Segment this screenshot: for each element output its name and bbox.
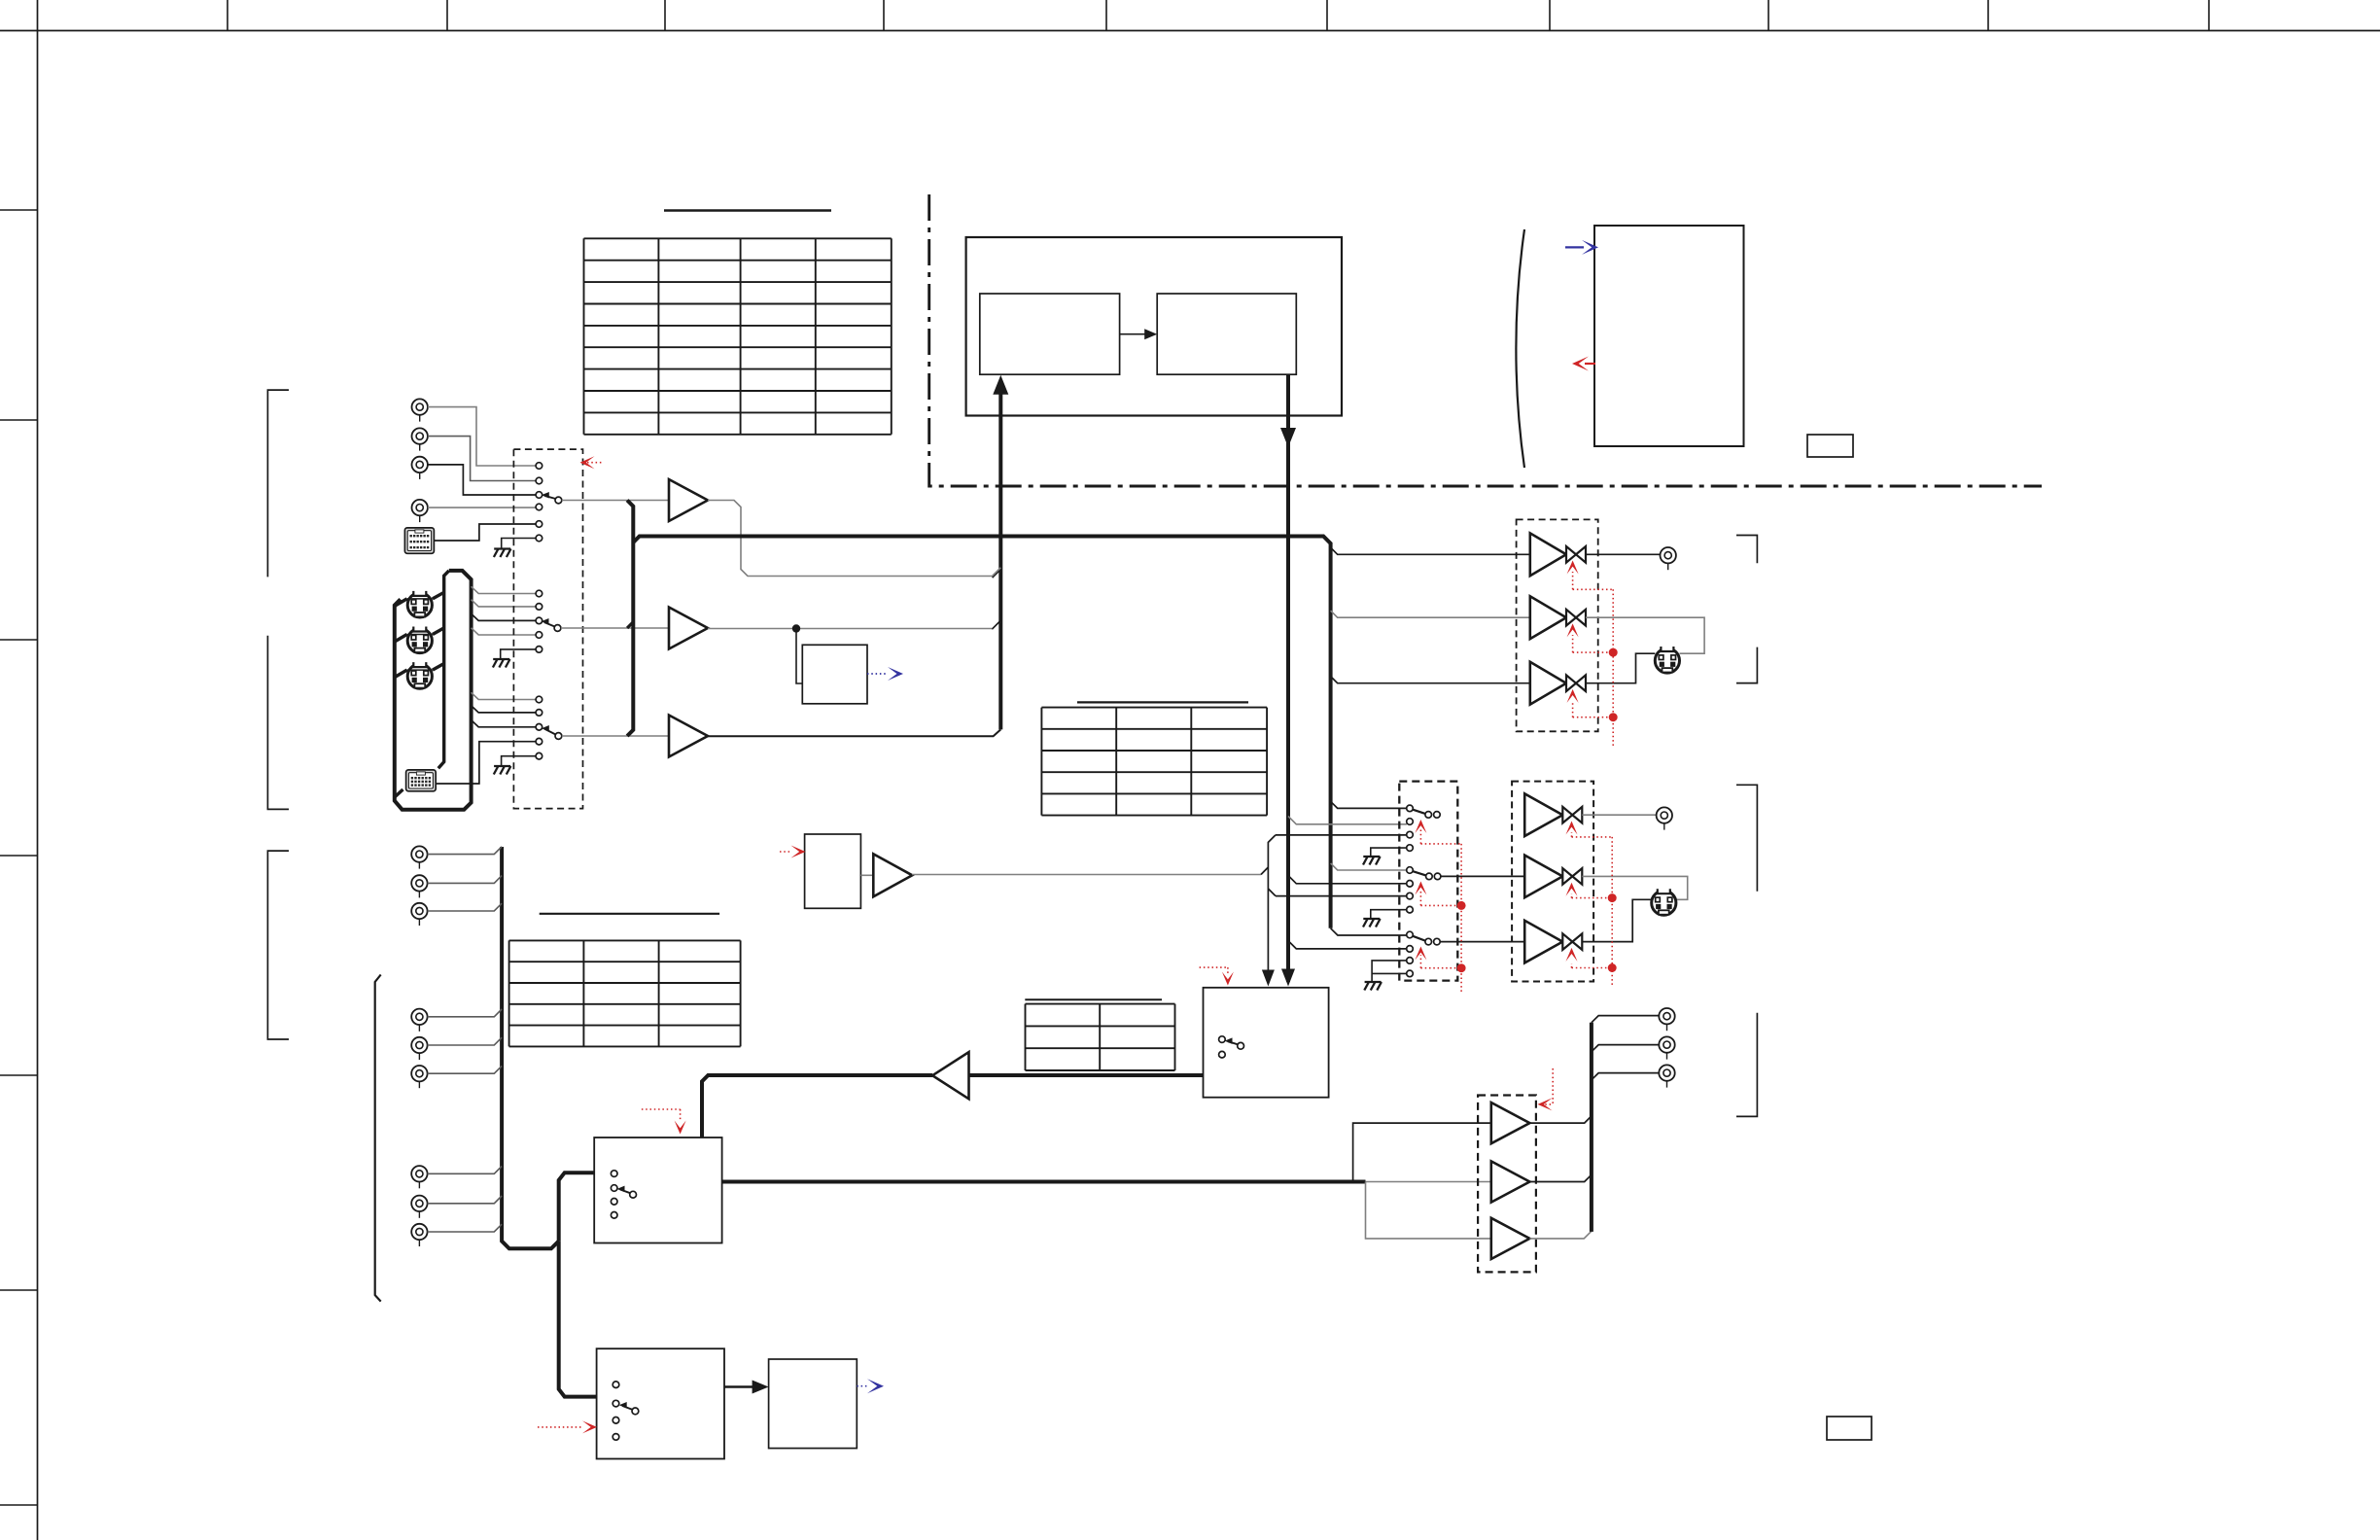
- S-video jack J5 (s video in 1): [407, 590, 432, 617]
- wire distribution column joins: [1268, 835, 1276, 974]
- connector P1 (dock connector): [404, 528, 434, 553]
- blue arrow out of encoder box: [857, 1385, 868, 1387]
- block U1 outer box (video processing): [966, 237, 1342, 416]
- SW2 lever arrow: [622, 1406, 632, 1410]
- red control net V-A vertical: [1612, 589, 1614, 746]
- wire P2 to selector S1 contact row9: [436, 742, 536, 784]
- wire bowtie B2 (Y) to S-video out right: [1586, 617, 1704, 653]
- wire OSD box to amp A4: [860, 874, 873, 876]
- block monitor select switch box: [1204, 988, 1329, 1098]
- ground G4: [1363, 857, 1381, 865]
- wire amp D2 out join bus: [1529, 1174, 1592, 1181]
- wire bowtie B1 to RCA monitor out: [1586, 553, 1660, 555]
- S-video jack J7 (s video in 3): [407, 661, 432, 688]
- wire bus from input switch riser to buffer A5: [702, 1075, 932, 1137]
- selector S1 group A common pole: [555, 497, 562, 504]
- panel stub P2 left: [395, 789, 403, 797]
- ground G5: [1363, 919, 1381, 927]
- wire P1 to selector S1 contact 5: [434, 524, 536, 541]
- table T2 (output assignment): [1041, 708, 1267, 816]
- SW1 lever arrow: [620, 1190, 630, 1194]
- op-amp component buffer D3: [1491, 1218, 1530, 1259]
- wire S-video bundle stub row2: [472, 600, 536, 607]
- mute switch SW-C3: [1562, 933, 1582, 950]
- selector S1 group C contacts: [536, 696, 542, 703]
- red branch S2 sub C: [1420, 967, 1461, 969]
- monitor switch lever arrow: [1228, 1041, 1238, 1044]
- monitor switch common pole: [1238, 1042, 1244, 1049]
- sheet border left line: [37, 0, 39, 1540]
- arrowhead down line into monitor switch box: [1281, 969, 1295, 987]
- wire bowtie B3 (C) to S-video out left: [1586, 653, 1655, 683]
- op-amp buffer A4: [873, 854, 912, 896]
- panel stub J6 right: [433, 628, 444, 635]
- mute switch SW-B3: [1566, 675, 1586, 691]
- junction dot on amp A2 output: [792, 624, 800, 632]
- blue arrow out of sync box: [867, 673, 886, 675]
- wire Pr branch down to amp D3: [1366, 1182, 1491, 1239]
- selector S1 group B contacts: [536, 590, 542, 597]
- wire J4 to selector S1 contact 4: [428, 507, 536, 508]
- wire rec selector A row3: [1276, 834, 1407, 836]
- wire S-video bundle stub row1: [472, 586, 536, 593]
- panel stub J7 left: [395, 670, 407, 678]
- wire S2 sub B pole output to amp C2: [1441, 875, 1524, 877]
- table T1 (input assignment): [584, 238, 892, 434]
- bracket parenthesis component input group: [375, 975, 381, 1302]
- block encoder box: [769, 1359, 857, 1449]
- wire junction to sync box: [796, 629, 802, 684]
- RCA jack J1 (video in 1): [412, 399, 428, 421]
- red branch to mute B1: [1573, 588, 1614, 590]
- ground G2: [493, 659, 510, 668]
- arrowhead mid on down line: [1280, 428, 1296, 447]
- RCA jack J23 (component Pr out): [1659, 1065, 1674, 1087]
- wire thick component out bundle: [1590, 1023, 1593, 1232]
- op-amp monitor buffer B2: [1530, 596, 1566, 639]
- wire gray join diag: [1261, 867, 1268, 875]
- wire J20 to component bundle: [428, 1224, 502, 1232]
- component out amp group dashed box: [1478, 1096, 1536, 1273]
- wire selector S2 C ground rows 3-4: [1372, 961, 1407, 981]
- wire bowtie C2 (Y) to S-video rec out right: [1582, 876, 1687, 899]
- sheet zone ticks top: [227, 0, 2209, 31]
- selector S1 group B lever arrow: [544, 622, 555, 626]
- op-amp rec buffer C3: [1524, 921, 1562, 963]
- wire selector S2 B ground: [1371, 910, 1407, 918]
- input selector S1 dashed box: [513, 449, 582, 808]
- bracket input group 3: [267, 851, 289, 1039]
- down line stub to rec selector A row2: [1288, 817, 1407, 824]
- table T4 (monitor select): [1026, 1004, 1175, 1070]
- bundle stub to monitor-out row3: [1331, 677, 1530, 683]
- selector S2 sub A lever: [1413, 810, 1425, 814]
- rec out amp group dashed box: [1512, 782, 1593, 982]
- red control net V-C for selector S2: [1460, 844, 1462, 992]
- SW1 contacts: [611, 1171, 617, 1177]
- red control net V-B vertical: [1611, 837, 1613, 987]
- wire J3 to selector S1 contact 3: [428, 465, 536, 495]
- wire J13 to component bundle: [428, 876, 502, 884]
- wire arrow from inner box A to inner box B: [1120, 333, 1147, 335]
- red arrow control into selector S1: [587, 462, 602, 464]
- bundle top bend to RCA Y out: [1592, 1016, 1659, 1023]
- bundle bottom bend to rec selector C row1: [1331, 928, 1407, 935]
- block interface box (to next sheet): [1594, 226, 1744, 446]
- op-amp buffer A2: [669, 608, 708, 649]
- bracket input group 1: [267, 390, 289, 577]
- wire J14 to component bundle: [428, 903, 502, 911]
- wire through J6 (Y/C): [407, 634, 433, 636]
- wire J19 to component bundle: [428, 1196, 502, 1204]
- selector S2 sub C poles: [1425, 938, 1432, 945]
- red arrow out of interface box: [1585, 363, 1595, 365]
- bundle stub to RCA Pr out: [1592, 1073, 1659, 1080]
- table T1 title underline: [664, 209, 831, 212]
- wire J1 to selector S1 contact 1: [428, 407, 536, 466]
- wire thick line down from U1 to monitor switch: [1286, 374, 1290, 982]
- wire through J7 (Y/C): [407, 669, 433, 671]
- red arrow control into component amp group: [1552, 1068, 1554, 1104]
- RCA jack J16 (component video in 2): [411, 1037, 427, 1060]
- bracket monitor out bottom: [1736, 647, 1757, 683]
- bracket rec out bottom: [1736, 1013, 1757, 1117]
- RCA jack J21 (component Y out): [1659, 1008, 1674, 1031]
- block U1 inner box A: [980, 294, 1120, 374]
- RCA jack J10 (video rec out): [1657, 807, 1672, 829]
- wire selector S2 A ground: [1371, 848, 1407, 856]
- rear panel inner line: [438, 571, 449, 768]
- RCA jack J20 (component video in 3): [411, 1224, 427, 1246]
- bundle stub to monitor-out row1: [1331, 547, 1530, 554]
- bundle stub to rec selector A row1: [1331, 801, 1407, 808]
- dash-dot partition boundary line: [929, 194, 2042, 486]
- selector S1 group C common pole: [555, 733, 562, 740]
- down line stub to rec selector C row2: [1288, 941, 1407, 949]
- bracket parenthesis left of interface box: [1516, 229, 1524, 468]
- wire S-video bundle stub row6: [472, 692, 536, 699]
- down line stub to rec selector B row2: [1288, 876, 1407, 884]
- arrowhead distribution column into monitor switch: [1262, 970, 1275, 987]
- op-amp monitor bus buffer A5 (left pointing): [932, 1052, 968, 1099]
- block sync separator box: [802, 645, 867, 704]
- wire through J5 (Y/C): [407, 598, 433, 600]
- wire thick bundle up into U1 (video to processor): [998, 387, 1002, 729]
- ground G3: [494, 766, 511, 775]
- wire S1 common C to amp A3: [562, 735, 669, 737]
- wire S1 common B to amp A2: [561, 627, 669, 629]
- mute switch SW-B2: [1566, 610, 1586, 626]
- wire rec selector B row3: [1276, 895, 1407, 897]
- selector S2 sub C contacts: [1407, 931, 1414, 938]
- selector S1 group A lever arrow: [545, 496, 556, 499]
- wire selector S1 svideo ground row5: [501, 649, 536, 658]
- table T3 (component input): [509, 940, 741, 1046]
- table T3 title underline: [540, 913, 719, 915]
- wire amp A4 output (gray) to distribution column: [912, 874, 1261, 876]
- small reference box R1: [1807, 435, 1853, 457]
- RCA jack J2 (video in 2): [412, 428, 428, 450]
- op-amp monitor buffer B1: [1530, 533, 1566, 576]
- selector S2 sub A contacts: [1407, 805, 1414, 812]
- wire amp A2 output with junction: [708, 628, 992, 630]
- wire amp A3 output into bundle bottom bend: [708, 729, 1000, 736]
- wire S-video bundle stub row8: [472, 720, 536, 727]
- RCA jack J22 (component Pb out): [1659, 1036, 1674, 1059]
- wire J16 to component bundle: [428, 1037, 502, 1045]
- monitor switch contacts: [1219, 1036, 1226, 1043]
- selector S2 sub B poles: [1426, 873, 1433, 880]
- red branch to mute B2: [1573, 651, 1614, 653]
- selector S1 group B common pole: [554, 625, 561, 632]
- wire amp A2 output joining bundle (45 deg): [992, 620, 1000, 629]
- bundle stub to RCA Pb out: [1592, 1045, 1659, 1052]
- wire J2 to selector S1 contact 2: [428, 437, 536, 481]
- block component input select box SW1: [594, 1137, 721, 1243]
- selector S1 group C lever arrow: [545, 729, 556, 735]
- wire S-video bundle stub row3: [472, 613, 536, 620]
- table T2 title underline: [1077, 701, 1248, 703]
- S-video jack J9 (monitor out s-video): [1655, 646, 1679, 673]
- op-amp monitor buffer B3: [1530, 662, 1566, 705]
- panel stub J5 right: [433, 592, 444, 599]
- block rec select switch box SW2: [597, 1348, 724, 1458]
- red arrow control into monitor switch box: [1200, 966, 1228, 968]
- op-amp buffer A1: [669, 479, 708, 521]
- mute switch SW-C2: [1562, 868, 1582, 885]
- bundle stub to rec selector B row1: [1331, 863, 1407, 870]
- RCA jack J12 (component video in 1): [411, 846, 427, 868]
- op-amp rec buffer C1: [1524, 793, 1562, 836]
- RCA jack J3 (video in 3): [412, 457, 428, 479]
- wire amp A1 output joining bundle (45 deg): [993, 570, 1001, 578]
- RCA jack J19 (component video in 3): [411, 1196, 427, 1218]
- small reference box R2: [1827, 1417, 1872, 1440]
- wire selector S1 contact 6 to ground: [502, 539, 536, 548]
- wire J12 to component bundle: [428, 847, 502, 855]
- wire branch diag to rec selector B row3: [1268, 889, 1276, 896]
- bracket monitor out top: [1736, 536, 1757, 564]
- wire J15 to component bundle: [428, 1009, 502, 1017]
- red arrow control into OSD box: [780, 851, 791, 853]
- selector S2 sub B lever: [1413, 871, 1426, 875]
- wire bundle of selected inputs vertical: [627, 501, 633, 737]
- SW2 common pole: [632, 1408, 639, 1415]
- red branch to mute C2: [1572, 897, 1613, 899]
- sheet zone ticks left: [0, 210, 38, 1505]
- table T4 title underline: [1025, 998, 1162, 1000]
- RCA jack J14 (component video in 1): [411, 903, 427, 926]
- selector S2 sub B contacts: [1407, 867, 1414, 874]
- SW2 contacts: [612, 1382, 619, 1388]
- RCA jack J4 (video in 4): [412, 500, 428, 522]
- wire amp A1 output to bundle riser: [708, 501, 1000, 577]
- rec out selector S2 dashed box: [1399, 782, 1457, 981]
- mute switch SW-B1: [1566, 546, 1586, 563]
- wire bowtie C1 to RCA rec out: [1582, 814, 1656, 816]
- red branch S2 sub B: [1420, 904, 1461, 906]
- wire amp D1 out join bus: [1529, 1116, 1592, 1123]
- wire bowtie C3 (C) to S-video rec out left: [1582, 899, 1651, 941]
- op-amp rec buffer C2: [1524, 856, 1562, 898]
- wire J17 to component bundle: [428, 1066, 502, 1073]
- rear panel outline (S-video group): [395, 571, 472, 810]
- RCA jack J15 (component video in 2): [411, 1009, 427, 1032]
- ground G6: [1364, 982, 1382, 991]
- wire component bundle drop to SW2: [559, 1242, 597, 1397]
- bracket input group 2: [267, 636, 289, 810]
- wire S1 common A to amp A1: [562, 500, 669, 502]
- wire Pb branch to amp D2: [1366, 1181, 1491, 1183]
- wire J18 to component bundle: [428, 1167, 502, 1174]
- red branch S2 sub A: [1420, 843, 1461, 845]
- ground G1: [494, 549, 511, 558]
- RCA jack J8 (monitor out video): [1661, 547, 1676, 570]
- connector P2 (dock connector 2): [406, 770, 437, 791]
- wire Y branch up to amp D1: [1353, 1123, 1491, 1181]
- RCA jack J18 (component video in 3): [411, 1166, 427, 1188]
- RCA jack J17 (component video in 2): [411, 1066, 427, 1088]
- red branch to mute B3: [1573, 717, 1614, 718]
- wire amp D3 out join bus: [1529, 1231, 1592, 1239]
- red arrow control into SW1 box: [642, 1108, 681, 1110]
- sheet border top line: [0, 30, 2380, 32]
- wire selector S1 svideo ground row10: [502, 756, 537, 765]
- RCA jack J13 (component video in 1): [411, 875, 427, 897]
- wire S-video bundle stub row7: [472, 706, 536, 713]
- red branch to mute C1: [1572, 836, 1613, 838]
- red arrow control into SW2 box: [538, 1426, 583, 1428]
- bundle tap at common B wire: [627, 622, 633, 628]
- op-amp buffer A3: [669, 716, 708, 757]
- selector S1 group A contacts: [536, 463, 542, 470]
- S-video jack J6 (s video in 2): [407, 626, 432, 653]
- selector S2 sub A poles: [1425, 812, 1432, 819]
- bundle stub to monitor-out row2: [1331, 611, 1530, 617]
- wire S-video bundle stub row4: [472, 628, 536, 635]
- monitor out amp group dashed box: [1517, 519, 1598, 731]
- SW1 common pole: [630, 1191, 637, 1198]
- op-amp component buffer D1: [1491, 1102, 1530, 1143]
- S-video jack J11 (s-video rec out): [1652, 889, 1676, 916]
- mute switch SW-C1: [1562, 807, 1582, 823]
- panel stub J6 left: [395, 635, 407, 643]
- bracket rec out top: [1736, 785, 1757, 891]
- wire thick bus U1 select to monitor box: [969, 1073, 1204, 1077]
- op-amp component buffer D2: [1491, 1161, 1530, 1202]
- wire S2 sub C pole output to amp C3: [1440, 941, 1524, 943]
- block U1 inner box B: [1157, 294, 1296, 374]
- block OSD mixer box: [805, 834, 861, 908]
- blue arrow into interface box: [1565, 246, 1584, 248]
- wire thick selected bundle horizontal: [633, 537, 1330, 928]
- red branch to mute C3: [1572, 967, 1613, 969]
- wire arrow SW2 to encoder box: [724, 1385, 753, 1388]
- wire component bundle vertical: [502, 847, 559, 1248]
- selector S2 sub C lever: [1413, 936, 1425, 941]
- panel stub J5 left: [395, 599, 407, 607]
- wire component bundle riser to SW1: [559, 1172, 595, 1241]
- wire thick component bundle SW1 to output amps: [722, 1180, 1366, 1184]
- panel stub J7 right: [433, 664, 444, 671]
